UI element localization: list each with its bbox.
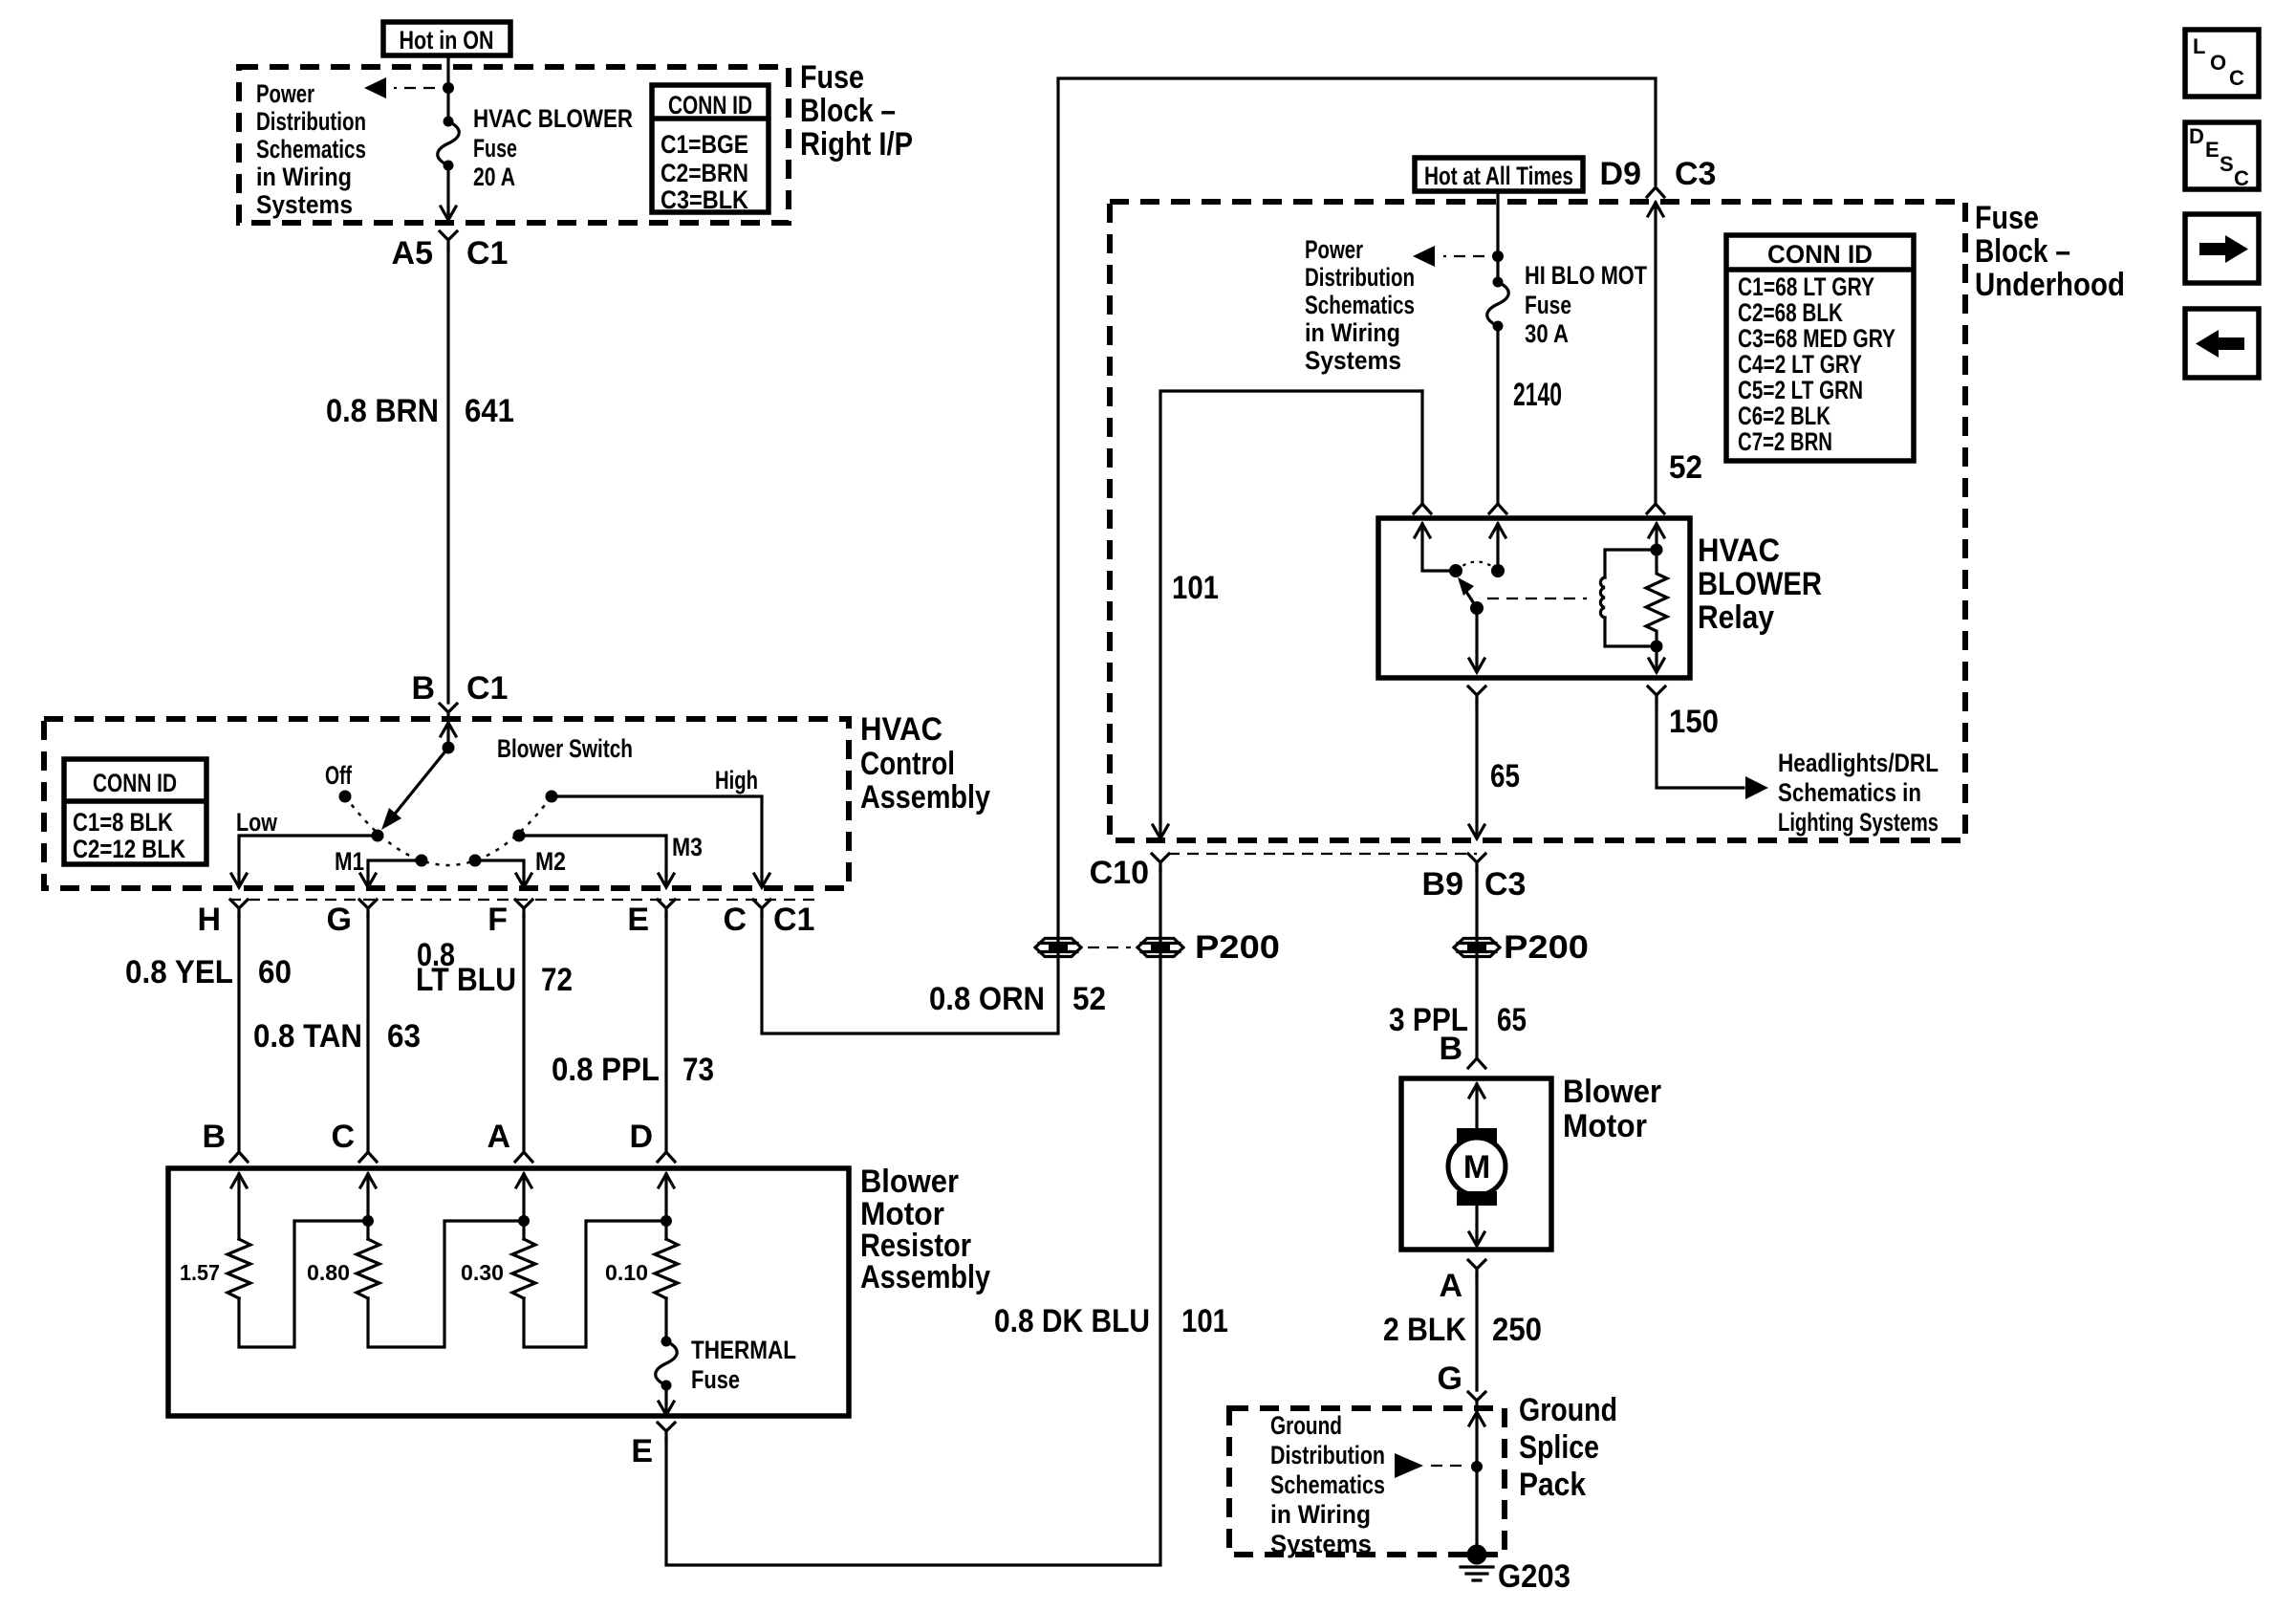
button back (left arrow) [2185,309,2259,378]
CONN ID table (Right I/P) [652,85,769,214]
wire: into ground splice [1469,1412,1484,1555]
wire: E to splice 101 (bottom run) [666,870,1160,1565]
wire: 0.8 YEL 60 [125,916,292,1152]
connector pin A (resistor) [487,1119,532,1162]
svg-text:0.8 DK BLU: 0.8 DK BLU [994,1303,1150,1339]
svg-text:C1=8 BLK: C1=8 BLK [73,808,173,837]
svg-text:641: 641 [465,393,514,429]
svg-text:0.8 ORN: 0.8 ORN [929,981,1045,1017]
svg-text:52: 52 [1669,449,1702,486]
svg-text:D: D [629,1119,653,1155]
relay wiper [1458,577,1484,615]
svg-text:L: L [2193,34,2205,58]
connector pin E [627,900,675,938]
node: junction on A wire [518,1215,530,1227]
svg-text:C: C [723,902,747,938]
wire: battery feed into HI BLO MOT fuse [1496,191,1499,282]
svg-text:0.8 TAN: 0.8 TAN [253,1018,362,1055]
wire: B into blower switch [441,723,456,748]
connector C10 [1090,854,1169,891]
svg-text:Systems: Systems [1305,346,1401,375]
resistor 0.10 ohm [605,1174,678,1341]
connector D9 / C3 [1600,156,1717,216]
svg-text:Fuse: Fuse [691,1365,740,1394]
svg-text:M1: M1 [335,847,364,876]
node: HI BLO MOT feed junction [1492,250,1504,262]
svg-text:C6=2 BLK: C6=2 BLK [1738,402,1830,430]
svg-text:M3: M3 [672,833,703,861]
svg-text:S: S [2220,152,2234,176]
node: junction on C wire [362,1215,374,1227]
svg-text:C2=68 BLK: C2=68 BLK [1738,298,1843,327]
relay output 65 [1468,608,1520,838]
svg-text:0.8 YEL: 0.8 YEL [125,954,233,990]
connector pin B (resistor) [202,1119,248,1162]
svg-text:Distribution: Distribution [1305,263,1415,292]
svg-text:65: 65 [1497,1002,1527,1038]
svg-text:HI BLO MOT: HI BLO MOT [1525,261,1647,290]
svg-text:0.10: 0.10 [605,1260,648,1285]
svg-text:C3=BLK: C3=BLK [661,185,748,214]
HVAC Control Assembly title [860,711,990,816]
note: Ground Distribution Schematics in Wiring Systems [1270,1411,1385,1558]
fuse: HI BLO MOT Fuse 30 A [1487,261,1648,348]
connector pin F [487,900,532,938]
M1 contact and wire [335,847,428,887]
svg-text:Lighting Systems: Lighting Systems [1778,808,1939,837]
connector B / C1 (HVAC control input) [411,670,508,720]
label box "Hot in ON" [383,22,510,55]
relay: HVAC BLOWER Relay box [1378,518,1690,678]
High contact and wire [546,766,770,887]
relay coil [1600,550,1657,646]
svg-text:Motor: Motor [1563,1108,1647,1144]
svg-text:Ground: Ground [1519,1392,1617,1428]
svg-text:1.57: 1.57 [180,1260,220,1285]
resistor 0.30 ohm [461,1174,666,1347]
Off contact [325,761,353,803]
note: Headlights/DRL Schematics in Lighting Systems [1778,749,1939,837]
svg-text:O: O [2210,51,2226,75]
svg-text:BLOWER: BLOWER [1698,566,1822,602]
svg-text:Fuse: Fuse [1525,291,1571,319]
Blower Motor Resistor Assembly title [860,1164,990,1295]
svg-text:Assembly: Assembly [860,779,990,816]
fuse: HVAC BLOWER Fuse 20 A [438,104,633,191]
svg-text:Ground: Ground [1270,1411,1342,1440]
svg-text:Headlights/DRL: Headlights/DRL [1778,749,1939,777]
Low contact and wire [231,808,384,887]
note: Power Distribution Schematics in Wiring Systems (right) [1305,235,1415,375]
svg-text:Blower: Blower [860,1164,959,1200]
pass-through connector P200 (on 52 wire) [1035,939,1081,957]
svg-text:Power: Power [1305,235,1363,264]
schematic reference arrow (ground distribution) [1395,1453,1464,1478]
wire: 0.8 ORN 52 (to underhood fuse block D9) [762,78,1656,1033]
connector pin G (ground splice) [1438,1360,1485,1408]
wire: ignition feed from Hot in ON [446,55,449,121]
svg-text:Block –: Block – [800,93,896,129]
svg-text:G: G [327,902,352,938]
svg-text:P200: P200 [1195,929,1280,966]
svg-text:C: C [2234,166,2249,190]
svg-text:B: B [202,1119,226,1155]
svg-text:LT BLU: LT BLU [416,962,516,998]
button LOC [2185,30,2259,97]
relay output 150 to headlights [1648,646,1768,799]
svg-text:Systems: Systems [256,190,353,219]
svg-text:in Wiring: in Wiring [1305,318,1400,347]
wire label 0.8 DK BLU 101 [994,1303,1228,1339]
HVAC BLOWER Relay title [1698,533,1822,636]
svg-text:C1: C1 [773,902,814,938]
svg-text:30 A: 30 A [1525,319,1569,348]
svg-text:D9: D9 [1600,156,1641,192]
label box "Hot at All Times" [1415,158,1583,191]
svg-text:60: 60 [258,954,292,990]
Ground Splice Pack title [1519,1392,1617,1503]
node: fuse feed junction [443,82,454,94]
svg-text:Low: Low [236,808,278,837]
svg-text:Blower: Blower [1563,1074,1661,1110]
Fuse Block Underhood title [1975,200,2125,303]
svg-text:150: 150 [1669,704,1719,740]
connector line P200 area (thin dashed below underhood box) [1168,853,1477,855]
svg-text:20 A: 20 A [473,163,515,191]
svg-text:Block –: Block – [1975,233,2070,270]
svg-text:Schematics: Schematics [1305,291,1415,319]
connector B9 / C3 [1422,854,1527,903]
connector pin G [327,900,377,938]
note: Power Distribution Schematics in Wiring Systems (left) [256,79,366,219]
svg-text:G203: G203 [1498,1558,1570,1595]
connector pin C / C1 [723,900,814,938]
blower switch common node [443,742,455,754]
svg-text:Underhood: Underhood [1975,267,2125,303]
connector pin E (resistor out) [631,1423,675,1469]
Fuse Block Right I/P dashed box [239,67,789,223]
CONN ID table (Underhood) [1726,235,1914,461]
svg-text:0.8 BRN: 0.8 BRN [326,393,439,429]
svg-text:C1: C1 [466,670,508,707]
svg-text:B9: B9 [1422,866,1463,903]
svg-text:HVAC: HVAC [1698,533,1780,569]
svg-text:63: 63 [387,1018,421,1055]
svg-text:73: 73 [682,1052,714,1088]
wire: 52 inside underhood box [1647,203,1702,513]
svg-text:E: E [2205,138,2220,162]
schematic reference arrow (to power distribution) [364,77,435,98]
connector pin C (resistor) [331,1119,377,1162]
wire: fuse output to A5 [441,165,456,220]
svg-text:M2: M2 [535,847,566,876]
relay actuation dashed link [1487,598,1587,599]
svg-text:M: M [1463,1149,1490,1186]
svg-text:Splice: Splice [1519,1429,1599,1466]
blower motor box [1401,1078,1551,1250]
connector pin A (blower motor) [1439,1260,1485,1304]
svg-text:0.30: 0.30 [461,1260,504,1285]
M3 contact and wire [513,830,704,888]
connector pin B (blower motor) [1439,1031,1485,1068]
svg-text:C4=2 LT GRY: C4=2 LT GRY [1738,350,1862,379]
svg-text:Schematics: Schematics [1270,1470,1385,1499]
relay coil feed from 52 pin [1655,524,1657,550]
svg-text:Relay: Relay [1698,599,1774,636]
button next (right arrow) [2185,214,2259,283]
wire: 2 BLK 250 [1383,1276,1542,1390]
wire: 0.8 BRN 641 [326,249,514,703]
wire: 2140 fuse output to relay [1489,326,1562,513]
svg-text:Fuse: Fuse [473,134,517,163]
connector pin H [197,900,248,938]
svg-text:THERMAL: THERMAL [691,1336,796,1364]
svg-text:C7=2 BRN: C7=2 BRN [1738,427,1832,456]
svg-text:Pack: Pack [1519,1467,1586,1503]
wire: 101 branch inside underhood box [1153,391,1431,838]
svg-text:C5=2 LT GRN: C5=2 LT GRN [1738,376,1863,404]
svg-text:G: G [1438,1360,1462,1397]
svg-text:A: A [1439,1268,1462,1304]
svg-text:D: D [2189,124,2204,148]
resistor 1.57 ohm [180,1174,368,1347]
svg-text:65: 65 [1490,758,1520,794]
svg-text:C2=12 BLK: C2=12 BLK [73,835,185,863]
svg-text:in Wiring: in Wiring [1270,1500,1371,1529]
svg-text:Distribution: Distribution [256,107,366,136]
svg-text:Power: Power [256,79,314,108]
connector A5 / C1 [392,231,509,272]
svg-text:0.80: 0.80 [307,1260,350,1285]
Ground Splice Pack dashed box [1229,1408,1505,1555]
wire: thermal fuse to pin E [659,1385,674,1415]
svg-text:Fuse: Fuse [1975,200,2039,236]
svg-text:CONN ID: CONN ID [668,91,752,120]
svg-text:Assembly: Assembly [860,1259,990,1295]
svg-text:C1: C1 [466,235,508,272]
relay contact nodes [1449,564,1462,577]
svg-text:H: H [197,902,221,938]
wire: 0.8 PPL 73 [552,916,714,1152]
node: junction on D wire [661,1215,672,1227]
svg-text:P200: P200 [1504,929,1589,966]
svg-text:101: 101 [1181,1303,1228,1339]
svg-text:Hot in ON: Hot in ON [400,26,494,54]
svg-text:A: A [487,1119,510,1155]
relay switch common input [1415,524,1456,571]
svg-text:0.8 PPL: 0.8 PPL [552,1052,660,1088]
svg-text:C3=68 MED GRY: C3=68 MED GRY [1738,324,1895,353]
svg-text:F: F [487,902,508,938]
connector C1 line (thin dashed) [229,899,820,901]
svg-text:Schematics in: Schematics in [1778,778,1921,807]
svg-text:C: C [331,1119,355,1155]
svg-text:CONN ID: CONN ID [1767,240,1873,269]
svg-text:in Wiring: in Wiring [256,163,352,191]
button DESC [2185,122,2259,190]
resistor 0.80 ohm [307,1174,524,1347]
svg-text:High: High [715,766,758,794]
motor M symbol [1448,1084,1505,1246]
relay NO contact input [1490,524,1505,571]
svg-text:HVAC: HVAC [860,711,942,748]
svg-text:C: C [2229,66,2244,90]
wire: 0.8 LT BLU 72 [416,916,573,1152]
HVAC Control Assembly dashed box [44,719,849,888]
svg-text:HVAC BLOWER: HVAC BLOWER [473,104,633,133]
M2 contact and wire [469,847,567,887]
svg-text:52: 52 [1072,981,1106,1017]
svg-text:C2=BRN: C2=BRN [661,159,748,187]
svg-text:Distribution: Distribution [1270,1441,1385,1469]
svg-text:CONN ID: CONN ID [93,769,177,797]
blower switch wiper [381,748,448,830]
svg-text:72: 72 [541,962,573,998]
svg-text:Fuse: Fuse [800,59,864,96]
wire: 3 PPL 65 to blower motor [1389,870,1527,1056]
svg-text:Hot at All Times: Hot at All Times [1424,162,1573,190]
Blower Motor title [1563,1074,1661,1144]
svg-text:C1=BGE: C1=BGE [661,130,748,159]
switch position arc (dotted) [345,796,552,865]
Blower Motor Resistor Assembly box [168,1168,849,1416]
svg-text:Blower Switch: Blower Switch [497,734,633,763]
svg-text:E: E [627,902,649,938]
svg-text:A5: A5 [392,235,433,272]
THERMAL Fuse [656,1336,796,1394]
svg-text:101: 101 [1172,570,1219,606]
Fuse Block Underhood dashed box [1110,202,1965,840]
relay contact arc (dotted) [1456,562,1498,572]
svg-text:B: B [411,670,435,707]
CONN ID table (HVAC control) [64,759,206,864]
svg-text:2 BLK: 2 BLK [1383,1312,1466,1348]
svg-text:Right I/P: Right I/P [800,126,913,163]
ground G203 [1461,1545,1570,1596]
schematic reference arrow (right power dist) [1413,246,1484,267]
svg-text:250: 250 [1492,1312,1542,1348]
svg-text:C3: C3 [1675,156,1716,192]
svg-text:Schematics: Schematics [256,135,366,163]
svg-text:Systems: Systems [1270,1530,1372,1558]
wire: 0.8 TAN 63 [253,916,421,1152]
node: ground splice junction [1471,1461,1483,1472]
svg-text:Control: Control [860,746,955,782]
svg-text:B: B [1439,1031,1462,1067]
connector pin D (resistor) [629,1119,675,1162]
svg-text:2140: 2140 [1513,377,1562,413]
svg-text:C10: C10 [1090,855,1149,891]
svg-text:Off: Off [325,761,353,790]
svg-text:C1=68 LT GRY: C1=68 LT GRY [1738,272,1874,301]
svg-text:C3: C3 [1484,866,1526,903]
Fuse Block Right I/P title [800,59,913,163]
relay coil suppression resistor [1646,544,1667,653]
pass-through connector P200 (on 101 wire) [1088,929,1280,966]
svg-text:E: E [631,1433,653,1469]
pass-through connector P200 (on 65 wire) [1454,929,1589,966]
